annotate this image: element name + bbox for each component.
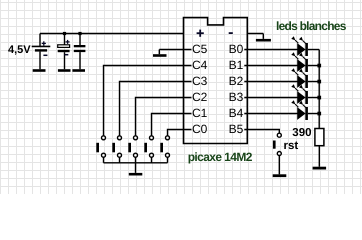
wire: C3 to switch S2 [120,82,192,136]
LED D5 (B4) [244,104,319,120]
svg-text:C3: C3 [192,74,208,88]
svg-text:rst: rst [284,140,299,152]
node: junction B3 row [317,96,321,100]
ground (capacitor C1) [58,69,71,72]
svg-text:B2: B2 [229,74,244,88]
svg-text:C2: C2 [192,90,208,104]
svg-text:picaxe 14M2: picaxe 14M2 [188,150,253,164]
ground (battery) [33,69,46,72]
LED D4 (B3) [244,88,319,104]
pushbutton S2 [112,136,121,163]
svg-text:B4: B4 [229,106,244,120]
node: junction B1 row [317,64,321,68]
svg-text:C5: C5 [192,42,208,56]
ground (resistor R1) [313,167,327,170]
wire: B5 to reset switch [244,130,279,134]
battery BT1 4,5V [39,34,41,47]
wire: switches common rail [104,162,168,164]
node: junction B4 row [317,112,321,116]
svg-text:C0: C0 [192,122,208,136]
wire: C0 to switch S5 [168,130,192,136]
svg-text:C4: C4 [192,58,208,72]
pushbutton S3 [128,136,137,163]
wire: C5 pin to ground [159,49,191,51]
svg-text:4,5V: 4,5V [8,44,31,56]
wire: LED cathode rail [318,50,320,129]
pushbutton S5 [160,136,169,163]
node: junction B2 row [317,80,321,84]
label: capacitor C1 + [66,40,70,44]
svg-text:B0: B0 [229,42,244,56]
ground (minus pin) [256,39,271,42]
LED D2 (B1) [244,56,319,72]
resistor R1 390 [315,129,324,146]
pushbutton S1 [96,136,105,163]
wire: C1 to switch S4 [152,114,192,136]
label: pin + [197,30,204,37]
node: junction capacitor C1 on rail [63,32,66,35]
label: capacitor C1 - [64,54,68,56]
svg-text:C1: C1 [192,106,208,120]
pushbutton S6 rst [273,133,281,174]
ground (capacitor C2) [72,69,85,72]
svg-text:B1: B1 [229,58,244,72]
wire: C2 to switch S3 [136,98,192,136]
pushbutton S4 [144,136,153,163]
node: junction capacitor C2 on rail [78,32,81,35]
wire: C4 to switch S1 [104,66,192,136]
label: pin - [229,32,233,34]
wire: + supply rail from battery to IC [40,33,184,35]
svg-text:leds blanches: leds blanches [276,19,347,33]
capacitor C1 (polarized) [64,34,66,45]
label: battery - [43,54,47,56]
LED D1 (B0) [244,40,319,56]
LED D3 (B2) [244,72,319,88]
svg-text:390: 390 [292,127,311,139]
ground (switch rail) [129,173,143,176]
svg-text:B3: B3 [229,90,244,104]
svg-text:B5: B5 [229,122,244,136]
IC U1 picaxe 14M2 body [184,18,248,144]
capacitor C2 [79,34,81,46]
ground (reset switch) [273,174,287,177]
label: battery + [42,41,46,45]
wire: - pin to ground [247,33,263,35]
ground (C5 pin) [153,54,167,57]
